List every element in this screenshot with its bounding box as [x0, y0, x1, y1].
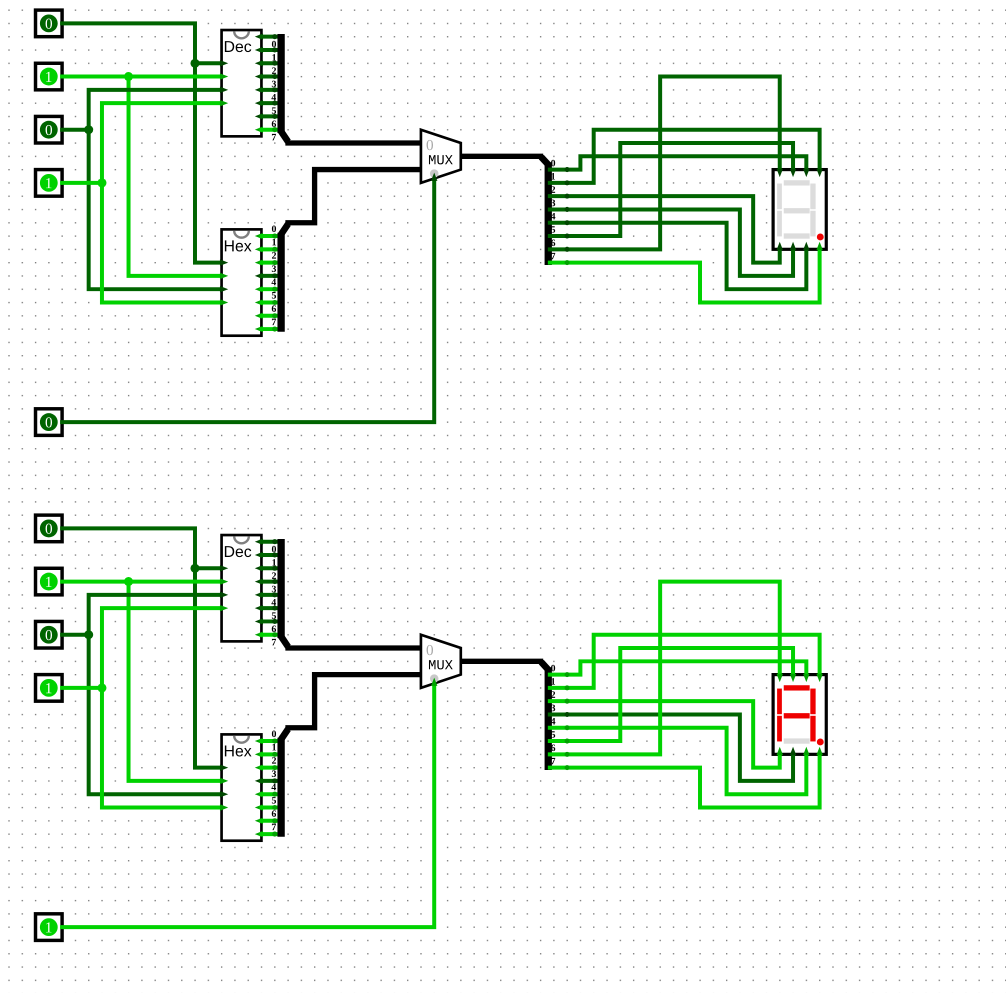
wire Dec-out bit 2 stub	[261, 62, 278, 65]
wire Dec-out bit 4 stub	[261, 593, 278, 596]
input pin C value 0	[36, 621, 63, 648]
wire net D	[62, 181, 102, 184]
Hex output pin 1	[255, 751, 263, 757]
Dec-out splitter endpoint 6	[272, 619, 277, 624]
display input pin bit 2	[777, 747, 783, 755]
wire display bit 5	[550, 143, 793, 236]
Dec-out splitter endpoint 5	[272, 101, 277, 106]
wire Hex-out bit 6 stub	[261, 819, 278, 822]
wire Dec-out bit 1 stub	[261, 553, 278, 556]
junction net B	[124, 577, 133, 586]
Hex output pin 2	[255, 259, 263, 265]
junction net C	[84, 630, 93, 639]
wire net D branch to Dec	[102, 103, 222, 183]
wire net A	[62, 528, 221, 767]
Dec input pin 3	[220, 605, 228, 611]
Hex output pin 2	[255, 764, 263, 770]
wire Dec-out bit 2 stub	[261, 567, 278, 570]
Hex output pin 0	[255, 233, 263, 239]
splitter fan-out spine	[545, 667, 551, 770]
wire display bit 5	[550, 648, 793, 741]
subcircuit Hex	[222, 734, 262, 840]
fan-out endpoint 0	[565, 167, 570, 172]
bus Hex to MUX	[288, 675, 421, 728]
wire Hex-out bit 4 stub	[261, 793, 278, 796]
Dec input pin 1	[220, 578, 228, 584]
Hex input pin 2	[220, 286, 228, 292]
wire net B	[62, 580, 221, 583]
wire net C branch to Hex	[89, 635, 222, 794]
wire Hex-out bit 3 stub	[261, 274, 278, 277]
Dec-out splitter endpoint 2	[272, 61, 277, 66]
wire display bit 7	[550, 754, 820, 807]
subcircuit Dec	[222, 30, 262, 136]
junction net D	[97, 178, 106, 187]
wire Dec-out bit 3 stub	[261, 580, 278, 583]
Hex output pin 7	[255, 831, 263, 837]
display input pin bit 1	[816, 169, 822, 177]
splitter Dec spine	[278, 539, 284, 638]
wire Dec-out bit 4 stub	[261, 88, 278, 91]
input pin B value 1	[36, 63, 63, 90]
input pin D value 1	[36, 170, 63, 197]
input pin SEL value 1	[36, 914, 63, 941]
wire display bit 7	[550, 249, 820, 302]
wire net D branch to Hex	[102, 183, 222, 303]
Hex-out splitter endpoint 6	[272, 313, 277, 318]
fan-out endpoint 7	[565, 765, 570, 770]
display input pin bit 7	[816, 747, 822, 755]
display input pin bit 6	[777, 169, 783, 177]
splitter Hex bit labels	[271, 731, 276, 831]
wire net B branch to Hex	[129, 77, 222, 276]
display input pin bit 7	[816, 242, 822, 250]
wire net SEL	[62, 685, 434, 928]
wire Hex-out bit 2 stub	[261, 261, 278, 264]
wire display bit 2	[550, 701, 780, 767]
wire Hex-out bit 7 stub	[261, 833, 278, 836]
splitter fan-out spine	[545, 162, 551, 265]
MUX select pin	[431, 173, 437, 181]
wire net C	[62, 633, 89, 636]
wire Dec-out bit 3 stub	[261, 75, 278, 78]
fan-out endpoint 2	[565, 699, 570, 704]
wire net B branch to Hex	[129, 582, 222, 781]
display input pin bit 2	[777, 242, 783, 250]
splitter Hex diagonal	[281, 729, 288, 740]
wire Hex-out bit 0 stub	[261, 235, 278, 238]
fan-out endpoint 4	[565, 725, 570, 730]
Dec output pin 1	[255, 47, 263, 53]
Dec output pin 1	[255, 552, 263, 558]
wire Hex-out bit 4 stub	[261, 288, 278, 291]
fan-out endpoint 3	[565, 712, 570, 717]
Dec-out splitter endpoint 0	[272, 539, 277, 544]
fan-out endpoint 6	[565, 752, 570, 757]
Dec output pin 6	[255, 113, 263, 119]
wire Hex-out bit 1 stub	[261, 753, 278, 756]
fan-out endpoint 1	[565, 180, 570, 185]
wire display bit 1	[550, 635, 820, 688]
Hex input pin 3	[220, 804, 228, 810]
Dec input pin 2	[220, 87, 228, 93]
wire net C branch to Dec	[89, 595, 222, 635]
Hex-out splitter endpoint 4	[272, 287, 277, 292]
wire net C branch to Hex	[89, 130, 222, 289]
Hex input pin 0	[220, 764, 228, 770]
Dec input pin 0	[220, 60, 228, 66]
fan-out endpoint 7	[565, 260, 570, 265]
splitter fan-out bit labels	[551, 160, 556, 260]
bus Dec to MUX	[288, 141, 421, 145]
Dec output pin 5	[255, 605, 263, 611]
MUX select pin	[431, 678, 437, 686]
wire Dec-out bit 7 stub	[261, 633, 278, 636]
Hex-out splitter endpoint 6	[272, 818, 277, 823]
Dec-out splitter endpoint 7	[272, 127, 277, 132]
splitter Hex bit labels	[271, 226, 276, 326]
wire net D	[62, 686, 102, 689]
input pin B value 1	[36, 568, 63, 595]
wire display bit 0	[550, 156, 806, 169]
multiplexer MUX	[421, 130, 461, 183]
wire Dec-out bit 5 stub	[261, 607, 278, 610]
junction net D	[97, 683, 106, 692]
Hex output pin 7	[255, 326, 263, 332]
input pin A value 0	[36, 10, 63, 37]
Dec-out splitter endpoint 1	[272, 552, 277, 557]
wire Hex-out bit 5 stub	[261, 806, 278, 809]
fan-out endpoint 5	[565, 234, 570, 239]
Dec-out splitter endpoint 4	[272, 592, 277, 597]
junction net A	[190, 564, 199, 573]
wire display bit 1	[550, 130, 820, 183]
wire net C branch to Dec	[89, 90, 222, 130]
wire Dec-out bit 0 stub	[261, 540, 278, 543]
Hex output pin 5	[255, 299, 263, 305]
wire net B	[62, 75, 221, 78]
Hex output pin 6	[255, 818, 263, 824]
Dec output pin 5	[255, 100, 263, 106]
wire Hex-out bit 7 stub	[261, 328, 278, 331]
fan-out endpoint 6	[565, 247, 570, 252]
Hex output pin 4	[255, 286, 263, 292]
Dec output pin 7	[255, 632, 263, 638]
Dec output pin 3	[255, 578, 263, 584]
Hex input pin 0	[220, 259, 228, 265]
splitter Hex spine	[278, 738, 284, 837]
Dec-out splitter endpoint 0	[272, 34, 277, 39]
Dec output pin 3	[255, 73, 263, 79]
Hex input pin 1	[220, 273, 228, 279]
splitter Dec bit labels	[271, 41, 276, 141]
wire Hex-out bit 6 stub	[261, 314, 278, 317]
Hex-out splitter endpoint 0	[272, 739, 277, 744]
display input pin bit 6	[777, 674, 783, 682]
Hex-out splitter endpoint 3	[272, 778, 277, 783]
display input pin bit 4	[803, 242, 809, 250]
Dec-out splitter endpoint 3	[272, 74, 277, 79]
Dec output pin 4	[255, 87, 263, 93]
wire Dec-out bit 5 stub	[261, 102, 278, 105]
display input pin bit 5	[790, 674, 796, 682]
Dec-out splitter endpoint 7	[272, 632, 277, 637]
display input pin bit 0	[803, 169, 809, 177]
splitter Dec diagonal	[281, 636, 288, 647]
display input pin bit 1	[816, 674, 822, 682]
fan-out endpoint 3	[565, 207, 570, 212]
junction net C	[84, 125, 93, 134]
display input pin bit 3	[790, 242, 796, 250]
wire display bit 6	[550, 582, 780, 755]
wire Dec-out bit 0 stub	[261, 35, 278, 38]
Dec input pin 3	[220, 100, 228, 106]
Hex input pin 3	[220, 299, 228, 305]
Dec-out splitter endpoint 6	[272, 114, 277, 119]
wire display bit 3	[550, 714, 793, 780]
Hex-out splitter endpoint 3	[272, 273, 277, 278]
bus MUX output	[461, 154, 541, 158]
Dec output pin 4	[255, 592, 263, 598]
Dec-out splitter endpoint 3	[272, 579, 277, 584]
splitter Hex spine	[278, 233, 284, 332]
wire net C	[62, 128, 89, 131]
wire Hex-out bit 1 stub	[261, 248, 278, 251]
wire Hex-out bit 5 stub	[261, 301, 278, 304]
wire Dec-out bit 6 stub	[261, 620, 278, 623]
fan-out endpoint 4	[565, 220, 570, 225]
Dec-out splitter endpoint 4	[272, 87, 277, 92]
splitter fan-out diagonal	[541, 662, 548, 670]
7-segment display seven-seg	[773, 170, 826, 250]
input pin A value 0	[36, 515, 63, 542]
Dec input pin 1	[220, 73, 228, 79]
wire net D branch to Hex	[102, 688, 222, 808]
Hex output pin 3	[255, 273, 263, 279]
junction net B	[124, 72, 133, 81]
bus Hex to MUX	[288, 170, 421, 223]
splitter fan-out diagonal	[541, 157, 548, 165]
wire Hex-out bit 3 stub	[261, 779, 278, 782]
splitter Dec spine	[278, 34, 284, 133]
multiplexer MUX	[421, 635, 461, 688]
bus MUX output	[461, 659, 541, 663]
Dec input pin 2	[220, 592, 228, 598]
Hex-out splitter endpoint 1	[272, 247, 277, 252]
subcircuit Dec	[222, 535, 262, 641]
input pin SEL value 0	[36, 409, 63, 436]
input pin D value 1	[36, 675, 63, 702]
Hex-out splitter endpoint 4	[272, 792, 277, 797]
wire display bit 4	[550, 728, 806, 794]
wire display bit 3	[550, 209, 793, 275]
wire display bit 6	[550, 77, 780, 250]
display input pin bit 5	[790, 169, 796, 177]
wire net A branch to Dec	[195, 62, 222, 65]
fan-out endpoint 0	[565, 672, 570, 677]
fan-out endpoint 1	[565, 685, 570, 690]
Hex-out splitter endpoint 7	[272, 327, 277, 332]
fan-out endpoint 5	[565, 739, 570, 744]
Hex input pin 1	[220, 778, 228, 784]
wire display bit 0	[550, 661, 806, 674]
Dec output pin 2	[255, 565, 263, 571]
Dec-out splitter endpoint 1	[272, 47, 277, 52]
bus Dec to MUX	[288, 646, 421, 650]
wire Dec-out bit 1 stub	[261, 48, 278, 51]
wire Dec-out bit 7 stub	[261, 128, 278, 131]
Dec-out splitter endpoint 2	[272, 566, 277, 571]
Dec input pin 0	[220, 565, 228, 571]
wire Hex-out bit 2 stub	[261, 766, 278, 769]
splitter Hex diagonal	[281, 224, 288, 235]
Hex output pin 0	[255, 738, 263, 744]
Hex-out splitter endpoint 5	[272, 300, 277, 305]
input pin C value 0	[36, 116, 63, 143]
display input pin bit 0	[803, 674, 809, 682]
display input pin bit 3	[790, 747, 796, 755]
Dec output pin 0	[255, 33, 263, 39]
Hex-out splitter endpoint 1	[272, 752, 277, 757]
Dec-out splitter endpoint 5	[272, 606, 277, 611]
Dec output pin 0	[255, 539, 263, 545]
wire net SEL	[62, 180, 434, 423]
wire net D branch to Dec	[102, 608, 222, 688]
wire net A	[62, 23, 221, 262]
junction net A	[190, 59, 199, 68]
wire display bit 2	[550, 196, 780, 262]
Hex-out splitter endpoint 7	[272, 832, 277, 837]
Hex output pin 1	[255, 246, 263, 252]
Hex-out splitter endpoint 0	[272, 234, 277, 239]
Hex-out splitter endpoint 2	[272, 260, 277, 265]
Dec output pin 7	[255, 127, 263, 133]
wire net A branch to Dec	[195, 567, 222, 570]
splitter Dec diagonal	[281, 131, 288, 142]
Hex-out splitter endpoint 2	[272, 765, 277, 770]
splitter Dec bit labels	[271, 546, 276, 646]
Hex output pin 4	[255, 791, 263, 797]
wire display bit 4	[550, 223, 806, 289]
wire Hex-out bit 0 stub	[261, 740, 278, 743]
splitter fan-out bit labels	[551, 665, 556, 765]
Hex output pin 5	[255, 804, 263, 810]
Hex input pin 2	[220, 791, 228, 797]
Hex-out splitter endpoint 5	[272, 805, 277, 810]
7-segment display seven-seg	[773, 675, 826, 755]
wire Dec-out bit 6 stub	[261, 115, 278, 118]
Dec output pin 6	[255, 618, 263, 624]
Dec output pin 2	[255, 60, 263, 66]
Hex output pin 6	[255, 313, 263, 319]
subcircuit Hex	[222, 229, 262, 335]
Hex output pin 3	[255, 778, 263, 784]
fan-out endpoint 2	[565, 194, 570, 199]
display input pin bit 4	[803, 747, 809, 755]
